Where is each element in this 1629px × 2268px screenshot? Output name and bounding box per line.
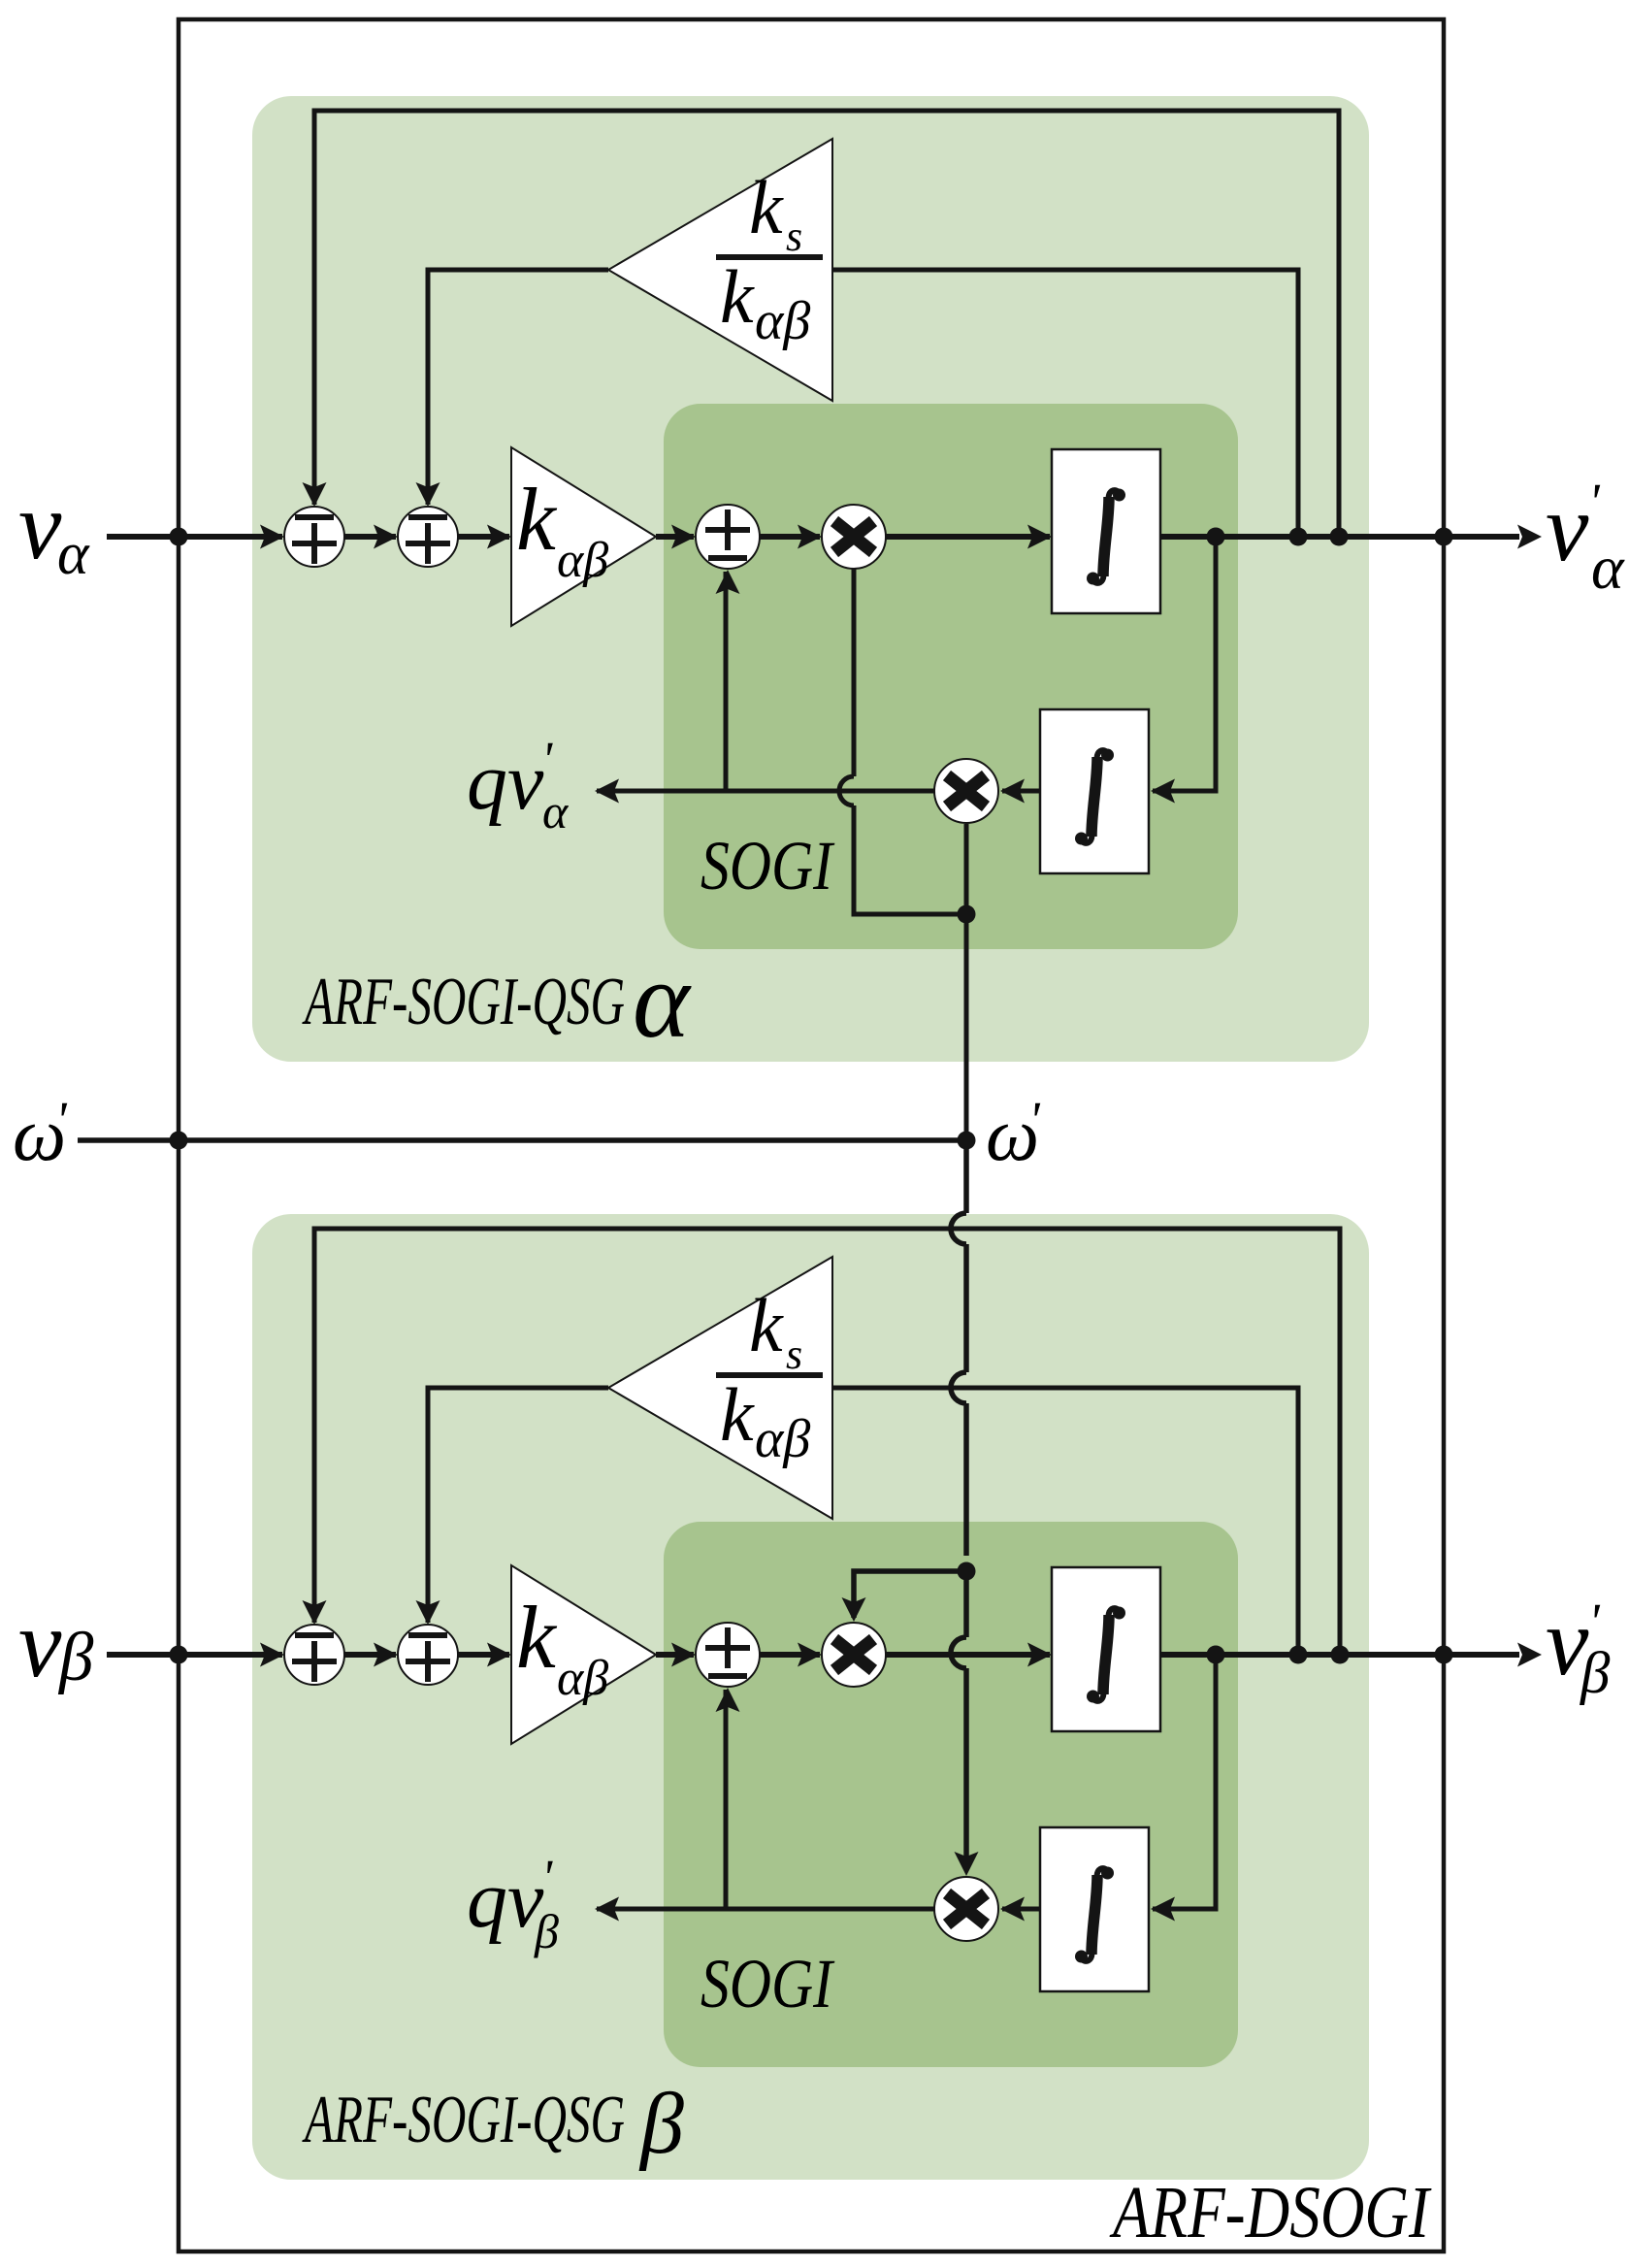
svg-text:SOGI: SOGI — [700, 827, 835, 904]
svg-text:ARF-SOGI-QSG: ARF-SOGI-QSG — [302, 2083, 625, 2157]
svg-text:s: s — [786, 213, 802, 260]
svg-text:β: β — [638, 2076, 684, 2172]
svg-text:SOGI: SOGI — [700, 1945, 835, 2022]
svg-text:': ' — [1028, 1091, 1041, 1149]
svg-text:α: α — [57, 521, 90, 587]
svg-text:k: k — [720, 1372, 755, 1457]
svg-text:': ' — [541, 733, 553, 788]
svg-text:': ' — [55, 1091, 68, 1149]
svg-text:β: β — [1580, 1641, 1611, 1706]
svg-text:α: α — [542, 784, 570, 838]
svg-text:α: α — [633, 940, 692, 1061]
svg-text:qv: qv — [467, 737, 544, 827]
svg-text:k: k — [749, 1283, 784, 1367]
svg-text:': ' — [541, 1851, 553, 1906]
svg-text:v: v — [18, 1590, 62, 1697]
svg-text:qv: qv — [467, 1855, 544, 1945]
svg-text:αβ: αβ — [755, 291, 810, 351]
svg-text:α: α — [1591, 533, 1625, 602]
svg-text:β: β — [57, 1620, 94, 1695]
svg-text:k: k — [749, 165, 784, 249]
svg-text:ARF-DSOGI: ARF-DSOGI — [1109, 2172, 1432, 2253]
svg-text:k: k — [516, 470, 558, 569]
svg-text:k: k — [720, 254, 755, 339]
svg-text:s: s — [786, 1331, 802, 1378]
svg-text:ARF-SOGI-QSG: ARF-SOGI-QSG — [302, 965, 625, 1039]
svg-text:αβ: αβ — [557, 533, 608, 588]
svg-text:k: k — [516, 1588, 558, 1687]
svg-text:v: v — [18, 472, 62, 579]
svg-text:αβ: αβ — [755, 1409, 810, 1469]
svg-text:β: β — [534, 1904, 559, 1958]
svg-text:αβ: αβ — [557, 1651, 608, 1706]
svg-text:v: v — [1546, 474, 1589, 581]
svg-text:': ' — [1588, 473, 1601, 531]
